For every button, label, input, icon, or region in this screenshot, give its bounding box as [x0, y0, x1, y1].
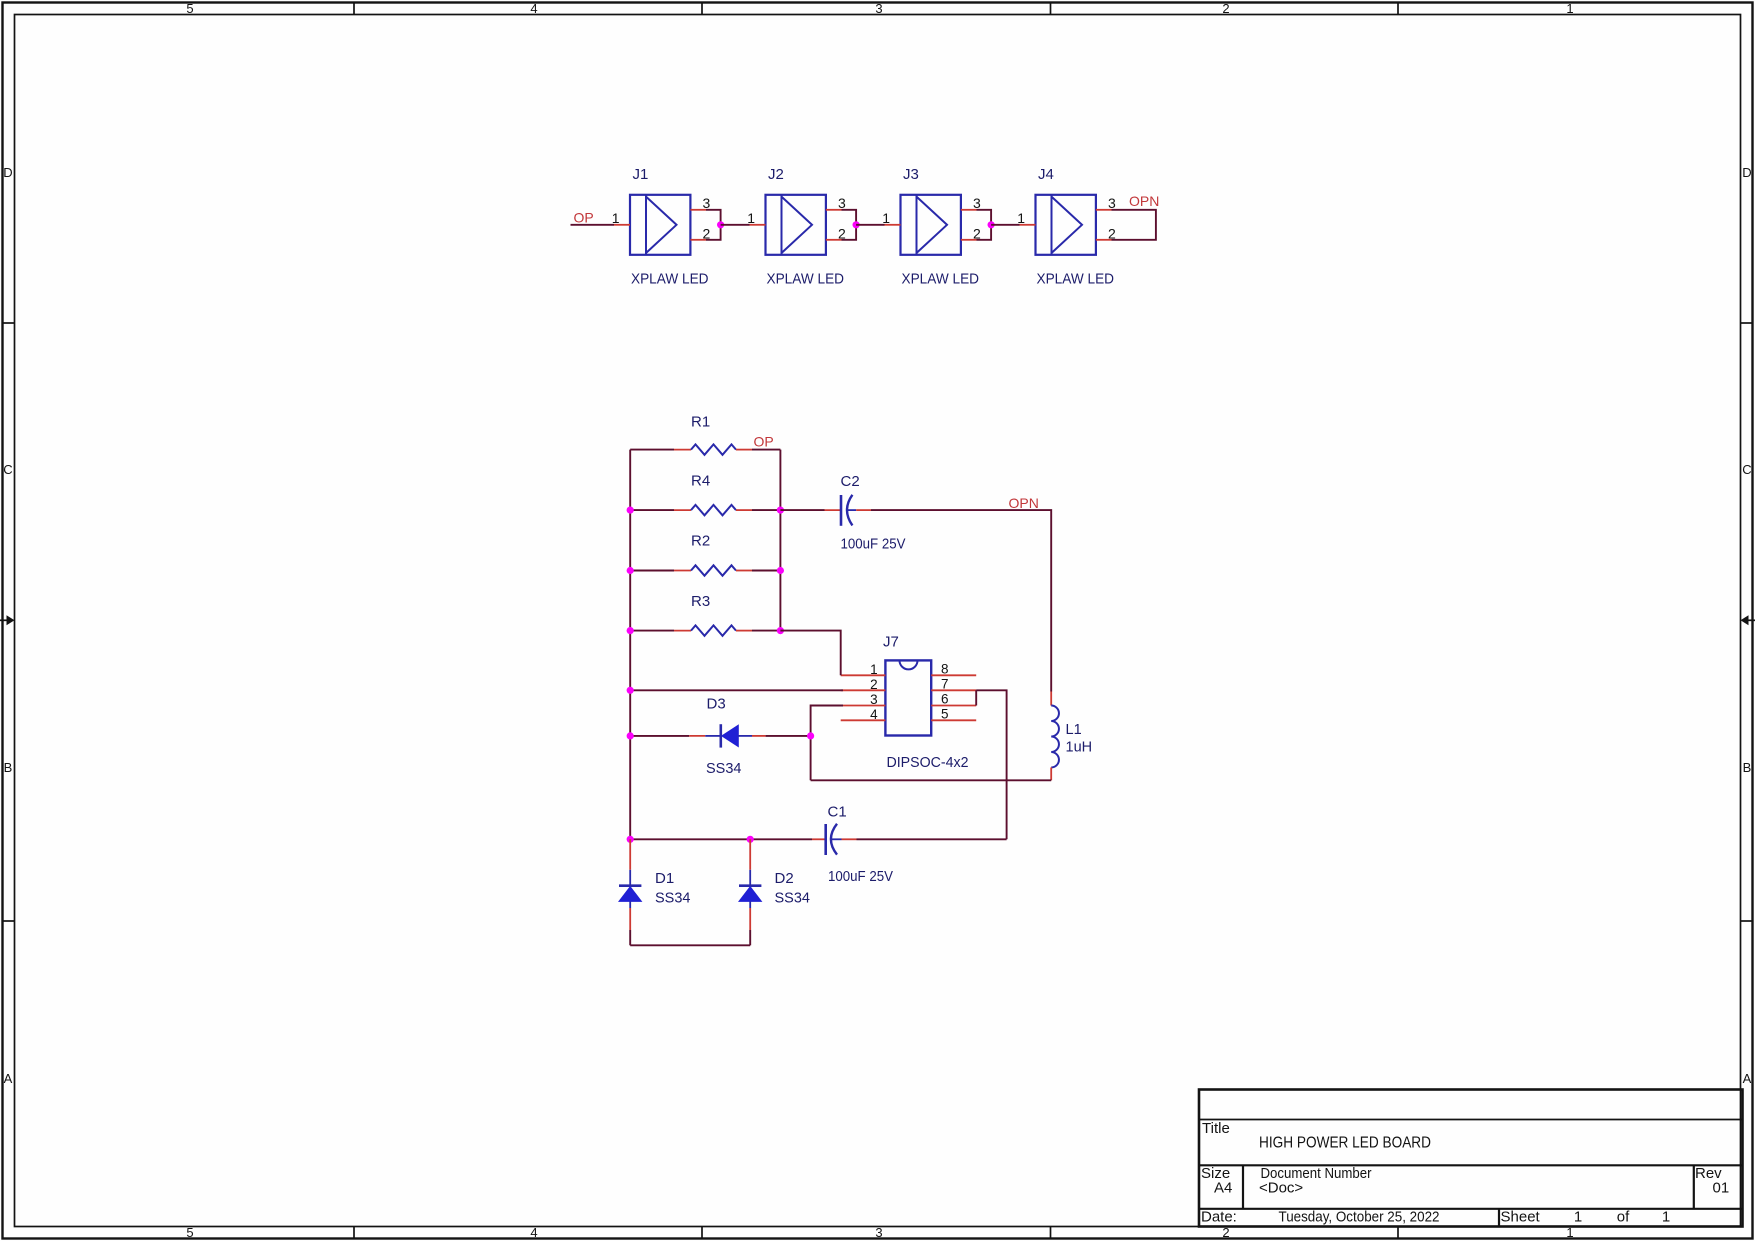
J1 pin 1 — [612, 210, 630, 226]
wire R3 left lead — [630, 630, 674, 632]
svg-text:1: 1 — [1566, 1, 1573, 16]
J7 pin 1 — [841, 662, 886, 677]
svg-text:<Doc>: <Doc> — [1259, 1180, 1303, 1197]
svg-text:J7: J7 — [883, 634, 899, 651]
svg-text:5: 5 — [186, 1, 193, 16]
svg-text:4: 4 — [870, 707, 878, 722]
svg-text:HIGH POWER LED BOARD: HIGH POWER LED BOARD — [1259, 1135, 1431, 1152]
connector J2 (XPLAW LED) — [766, 166, 845, 287]
J4 pin 1 — [1017, 210, 1035, 226]
wire J1 pin3-pin2 jumper — [706, 210, 721, 240]
svg-text:XPLAW LED: XPLAW LED — [902, 271, 980, 287]
svg-text:5: 5 — [941, 706, 949, 721]
wire J2 pin3-pin2 jumper — [842, 210, 857, 240]
wire R4 row to C2 — [780, 509, 824, 511]
J7 pin 2 — [841, 677, 886, 692]
junction left bus — [627, 507, 634, 514]
svg-text:Tuesday, October 25, 2022: Tuesday, October 25, 2022 — [1279, 1209, 1440, 1226]
J7 pin 3 — [841, 692, 886, 707]
svg-text:XPLAW LED: XPLAW LED — [767, 271, 845, 287]
svg-text:C: C — [1742, 462, 1751, 477]
svg-text:100uF 25V: 100uF 25V — [841, 537, 906, 553]
wire R1 left lead — [630, 449, 674, 451]
svg-text:SS34: SS34 — [655, 890, 690, 906]
J7 pin 7 — [931, 676, 976, 691]
junction D2 top — [747, 836, 754, 843]
wire C1 to pin7 vertical — [857, 838, 1007, 840]
J1 pin 2 — [690, 225, 710, 241]
svg-text:3: 3 — [875, 1225, 882, 1240]
wire D3 to node A — [766, 735, 811, 737]
svg-text:C1: C1 — [828, 804, 847, 821]
svg-text:of: of — [1617, 1209, 1630, 1226]
diode D3 SS34 — [689, 696, 765, 778]
svg-text:3: 3 — [973, 195, 981, 211]
inductor L1 1uH — [1051, 692, 1092, 781]
J7 pin 6 — [931, 692, 976, 707]
svg-text:Date:: Date: — [1201, 1209, 1237, 1226]
junction left bus — [627, 567, 634, 574]
svg-text:01: 01 — [1713, 1180, 1730, 1197]
svg-text:A: A — [1743, 1071, 1752, 1086]
svg-text:C: C — [3, 462, 12, 477]
net label OPN (C2 right) — [1009, 495, 1039, 511]
capacitor C1 100uF 25V — [812, 804, 893, 886]
svg-text:DIPSOC-4x2: DIPSOC-4x2 — [887, 754, 969, 771]
J2 pin 1 — [747, 210, 765, 226]
svg-text:1: 1 — [870, 662, 878, 677]
wire J7 pin 7 to C1 vertical — [976, 690, 1006, 839]
svg-text:3: 3 — [1108, 195, 1116, 211]
net label OP (R1 right) — [754, 434, 774, 450]
diode D1 SS34 — [619, 839, 690, 930]
svg-text:100uF 25V: 100uF 25V — [828, 869, 893, 885]
svg-text:OPN: OPN — [1009, 495, 1039, 511]
wire left bus to D3 — [630, 735, 689, 737]
wire J7 pin 6 riser to pin 7 net — [975, 690, 977, 705]
svg-text:B: B — [4, 760, 13, 775]
svg-text:2: 2 — [870, 677, 878, 692]
wire D2 bottom lead — [749, 930, 751, 945]
junction left bus — [627, 627, 634, 634]
wire R4 right lead — [752, 509, 780, 511]
svg-text:R1: R1 — [691, 414, 710, 431]
svg-text:J2: J2 — [768, 166, 784, 183]
svg-text:R4: R4 — [691, 473, 710, 490]
svg-text:J4: J4 — [1038, 166, 1054, 183]
svg-text:R2: R2 — [691, 533, 710, 550]
J7 pin 5 — [931, 706, 976, 721]
J1 pin 3 — [690, 195, 710, 211]
junction left bus / D3 — [627, 732, 634, 739]
svg-text:C2: C2 — [841, 473, 860, 490]
svg-text:A4: A4 — [1214, 1180, 1232, 1197]
svg-text:5: 5 — [186, 1225, 193, 1240]
capacitor C2 100uF 25V — [825, 473, 906, 553]
svg-text:SS34: SS34 — [706, 761, 741, 777]
connector J3 (XPLAW LED) — [901, 166, 980, 287]
wire right bus vertical (OP net) — [779, 450, 781, 631]
svg-text:3: 3 — [870, 692, 878, 707]
resistor R2 — [674, 533, 752, 576]
svg-text:6: 6 — [941, 692, 949, 707]
title block — [1199, 1090, 1743, 1227]
junction right bus — [777, 567, 784, 574]
resistor R1 — [674, 414, 752, 455]
J3 pin 2 — [961, 225, 981, 241]
svg-text:D2: D2 — [775, 870, 794, 887]
wire J7 pin 3 to node A vertical — [811, 706, 843, 781]
svg-text:Sheet: Sheet — [1501, 1209, 1541, 1226]
wire J4 pin3-pin2 loop (OPN) — [1112, 210, 1156, 240]
junction right bus — [777, 627, 784, 634]
svg-text:D: D — [3, 165, 12, 180]
connector J1 (XPLAW LED) — [630, 166, 709, 287]
svg-text:Title: Title — [1202, 1120, 1230, 1137]
wire C2 to OPN corner — [871, 510, 1051, 691]
svg-text:7: 7 — [941, 676, 949, 691]
svg-text:1: 1 — [1574, 1209, 1582, 1226]
svg-text:1: 1 — [1017, 210, 1025, 226]
junction J2 output node — [853, 221, 860, 228]
wire left bus to J7 pin 2 — [630, 689, 843, 691]
svg-text:3: 3 — [875, 1, 882, 16]
wire D1-D2 bottom — [630, 944, 750, 946]
J7 pin 8 — [931, 661, 976, 676]
svg-text:8: 8 — [941, 661, 949, 676]
svg-text:OP: OP — [574, 210, 594, 226]
resistor R3 — [674, 593, 752, 636]
svg-text:D3: D3 — [707, 696, 726, 713]
J4 pin 2 — [1096, 225, 1116, 241]
svg-text:2: 2 — [1222, 1, 1229, 16]
wire R2 right lead — [752, 570, 780, 572]
svg-text:4: 4 — [530, 1225, 537, 1240]
svg-text:1: 1 — [747, 210, 755, 226]
svg-text:A: A — [4, 1071, 13, 1086]
wire J3 pin3-pin2 jumper — [977, 210, 992, 240]
svg-text:1: 1 — [612, 210, 620, 226]
svg-text:1uH: 1uH — [1066, 740, 1093, 756]
wire bottom horizontal to L1 — [811, 779, 1052, 781]
junction left bus / C1 row / D1 — [627, 836, 634, 843]
svg-text:R3: R3 — [691, 593, 710, 610]
J3 pin 1 — [882, 210, 900, 226]
wire J1 to J2 pin 1 — [721, 224, 750, 226]
svg-text:J1: J1 — [633, 166, 649, 183]
wire OP to J1 pin 1 — [571, 224, 615, 226]
svg-text:J3: J3 — [903, 166, 919, 183]
wire D1 bottom lead — [629, 930, 631, 945]
svg-text:3: 3 — [838, 195, 846, 211]
svg-text:4: 4 — [530, 1, 537, 16]
wire R3 right lead — [752, 630, 780, 632]
J4 pin 3 — [1096, 195, 1116, 211]
diode D2 SS34 — [739, 839, 810, 930]
svg-text:L1: L1 — [1066, 722, 1082, 738]
svg-text:1: 1 — [882, 210, 890, 226]
svg-text:XPLAW LED: XPLAW LED — [631, 271, 709, 287]
wire R2 left lead — [630, 570, 674, 572]
wire J2 to J3 pin 1 — [856, 224, 884, 226]
svg-text:D1: D1 — [655, 870, 674, 887]
wire R3 to J7 pin 1 — [780, 631, 840, 676]
svg-text:SS34: SS34 — [775, 890, 810, 906]
J2 pin 3 — [826, 195, 846, 211]
junction right bus — [777, 507, 784, 514]
wire R4 left lead — [630, 509, 674, 511]
svg-text:B: B — [1743, 760, 1752, 775]
J3 pin 3 — [961, 195, 981, 211]
resistor R4 — [674, 473, 752, 516]
wire left bus vertical — [629, 450, 631, 840]
svg-text:D: D — [1742, 165, 1751, 180]
junction D3 / node A — [807, 732, 814, 739]
wire R1 right lead — [752, 449, 780, 451]
wire bus to C1 — [630, 838, 812, 840]
wire J3 to J4 pin 1 — [991, 224, 1019, 226]
net label OP (J1 input) — [574, 210, 594, 226]
net label OPN (J4 output) — [1129, 193, 1159, 209]
junction J1 output node — [717, 221, 724, 228]
connector J4 (XPLAW LED) — [1036, 166, 1115, 287]
connector J7 (DIPSOC-4x2) — [883, 634, 969, 771]
svg-text:OPN: OPN — [1129, 193, 1159, 209]
svg-text:XPLAW LED: XPLAW LED — [1037, 271, 1115, 287]
junction left bus / pin2 wire — [627, 687, 634, 694]
J2 pin 2 — [826, 225, 846, 241]
svg-text:3: 3 — [703, 195, 711, 211]
junction J3 output node — [988, 221, 995, 228]
svg-text:1: 1 — [1662, 1209, 1670, 1226]
svg-text:OP: OP — [754, 434, 774, 450]
J7 pin 4 — [841, 707, 886, 722]
